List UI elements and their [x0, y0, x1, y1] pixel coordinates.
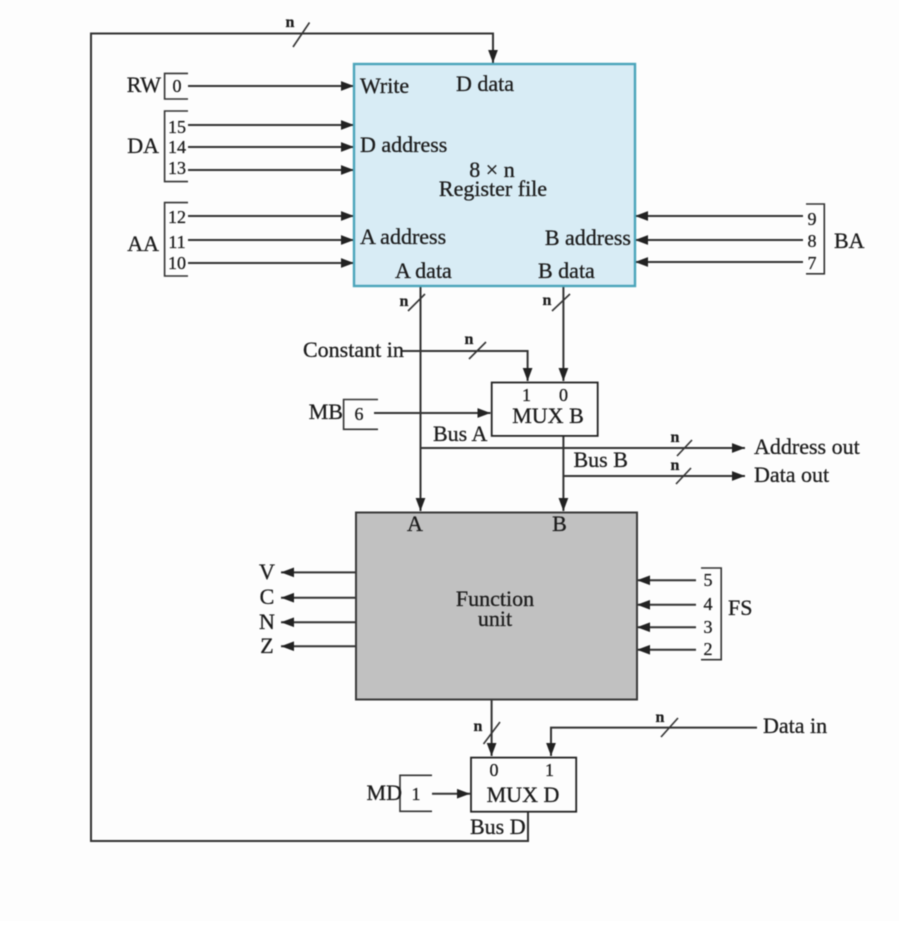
wire: function unit N output — [281, 621, 356, 623]
svg-text:A data: A data — [395, 258, 452, 283]
svg-text:6: 6 — [355, 404, 364, 424]
svg-text:D data: D data — [456, 71, 514, 96]
svg-text:0: 0 — [559, 385, 568, 405]
svg-text:Bus B: Bus B — [574, 447, 628, 472]
svg-text:7: 7 — [808, 253, 817, 273]
wire: A data / Bus A down to function unit A — [420, 286, 422, 511]
wire: function unit output down to MUX D input 0 — [491, 699, 493, 756]
svg-text:Data out: Data out — [754, 462, 829, 487]
svg-text:N: N — [259, 609, 275, 634]
control field box MD bit 1 — [400, 775, 432, 811]
svg-text:n: n — [474, 718, 483, 735]
bus width slash: constant in n — [469, 342, 486, 359]
wire: Bus A branch to Address out — [421, 447, 746, 449]
svg-text:Register file: Register file — [439, 176, 547, 201]
control field box FS bits 5-2 — [701, 568, 721, 660]
wire: DA bit 15 — [188, 124, 354, 126]
svg-text:B address: B address — [545, 225, 631, 250]
svg-text:FS: FS — [728, 595, 752, 620]
svg-text:0: 0 — [490, 760, 499, 780]
wire: function unit Z output — [281, 645, 356, 647]
svg-text:Bus D: Bus D — [470, 814, 526, 839]
svg-text:5: 5 — [704, 570, 713, 590]
svg-text:n: n — [400, 293, 409, 310]
svg-text:MUX D: MUX D — [487, 782, 560, 807]
mux MUX D box — [471, 758, 576, 812]
svg-text:3: 3 — [704, 617, 713, 637]
register file box — [354, 64, 635, 286]
svg-text:13: 13 — [168, 158, 186, 178]
bus width slash: B data n — [552, 294, 570, 311]
svg-text:Constant in: Constant in — [303, 337, 404, 362]
bus width slash: top n — [293, 23, 310, 48]
svg-text:8: 8 — [808, 231, 817, 251]
svg-text:14: 14 — [168, 137, 186, 157]
wire: Bus B branch to Data out — [563, 475, 745, 477]
wire: MUX B output Bus B down to function unit B — [562, 436, 564, 511]
svg-text:Write: Write — [360, 73, 409, 98]
mux MUX B box — [492, 383, 598, 436]
svg-text:15: 15 — [168, 117, 186, 137]
wire: BA bit 7 — [635, 261, 803, 263]
wire: RW to Write — [188, 85, 354, 87]
wire: Data in to MUX D input 1 — [551, 728, 757, 756]
svg-text:2: 2 — [704, 639, 713, 659]
wire: Bus D writeback loop (MUX D output, bottom, left side, top to D data) — [91, 34, 528, 842]
bus width slash: A data n — [408, 294, 425, 311]
svg-text:MD: MD — [367, 780, 402, 805]
wire: function unit C output — [281, 597, 356, 599]
control field box BA bits 9-7 — [806, 204, 824, 274]
wire: FS bit 3 — [637, 626, 696, 628]
svg-text:n: n — [286, 14, 295, 31]
svg-text:4: 4 — [704, 594, 713, 614]
svg-text:1: 1 — [522, 385, 531, 405]
control field box AA bits 12-10 — [165, 203, 188, 276]
svg-text:Bus A: Bus A — [433, 421, 488, 446]
svg-text:Address out: Address out — [754, 434, 860, 459]
svg-text:n: n — [671, 457, 680, 474]
wire: MD select to MUX D — [432, 793, 470, 795]
svg-text:n: n — [671, 429, 680, 446]
wire: FS bit 2 — [637, 649, 696, 651]
svg-text:MB: MB — [309, 399, 343, 424]
svg-text:Z: Z — [260, 633, 273, 658]
bus width slash: function output n — [484, 722, 501, 744]
control field box DA bits 15-13 — [165, 111, 188, 182]
svg-text:D address: D address — [360, 132, 447, 157]
wire: Constant in to MUX B input 1 — [402, 351, 528, 381]
wire: FS bit 5 — [637, 579, 696, 581]
svg-text:n: n — [465, 331, 474, 348]
wire: AA bit 10 — [188, 262, 354, 264]
svg-text:9: 9 — [808, 209, 817, 229]
svg-text:1: 1 — [545, 760, 554, 780]
wire: DA bit 13 — [188, 169, 354, 171]
wire: FS bit 4 — [637, 604, 696, 606]
svg-text:1: 1 — [412, 784, 421, 804]
svg-text:11: 11 — [168, 232, 185, 252]
bus width slash: data out n — [676, 468, 691, 484]
bus width slash: data in n — [661, 718, 678, 737]
svg-text:DA: DA — [127, 133, 159, 158]
svg-text:MUX B: MUX B — [512, 403, 584, 428]
bus width slash: address out n — [677, 440, 692, 456]
svg-text:C: C — [260, 584, 275, 609]
svg-text:AA: AA — [127, 231, 159, 256]
svg-text:V: V — [259, 559, 275, 584]
svg-text:n: n — [656, 709, 665, 726]
wire: function unit V output — [281, 571, 356, 573]
wire: DA bit 14 — [188, 146, 354, 148]
svg-text:unit: unit — [478, 606, 512, 631]
svg-text:B data: B data — [538, 258, 595, 283]
wire: AA bit 11 — [188, 239, 354, 241]
svg-text:RW: RW — [127, 72, 161, 97]
wire: AA bit 12 — [188, 215, 354, 217]
wire: BA bit 8 — [635, 239, 803, 241]
control field box RW bit 0 — [165, 73, 188, 99]
wire: BA bit 9 — [635, 215, 803, 217]
svg-text:Data in: Data in — [763, 713, 827, 738]
wire: B data down to MUX B input 0 — [562, 286, 564, 381]
svg-text:B: B — [552, 511, 567, 536]
svg-text:12: 12 — [168, 207, 186, 227]
svg-text:A address: A address — [360, 224, 446, 249]
control field box MB bit 6 — [344, 400, 378, 430]
svg-text:A: A — [407, 511, 423, 536]
wire: MB select to MUX B — [374, 412, 491, 414]
svg-text:BA: BA — [834, 228, 865, 253]
svg-text:10: 10 — [168, 253, 186, 273]
svg-text:0: 0 — [173, 76, 182, 96]
function unit box — [356, 513, 637, 700]
svg-text:n: n — [543, 292, 552, 309]
